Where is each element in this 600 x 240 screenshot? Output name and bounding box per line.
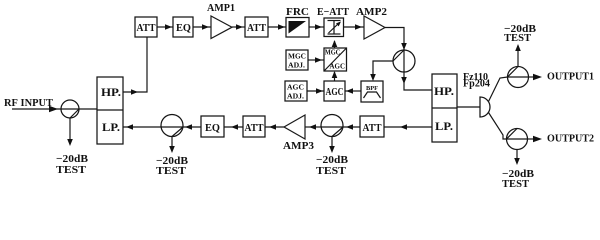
svg-text:Fp204: Fp204 bbox=[463, 79, 490, 90]
arrow into X1 LP bbox=[126, 124, 133, 130]
arrow OUTPUT1 bbox=[533, 74, 542, 80]
arrow into DC6 bbox=[185, 124, 192, 130]
label -20dB TEST T2 bbox=[156, 155, 189, 177]
wire MGC ADJ to MGC/AGC bbox=[308, 59, 324, 61]
wire DC6 to X1 LP bbox=[123, 126, 161, 128]
svg-text:TEST: TEST bbox=[504, 32, 532, 44]
wire DC5 to AMP3 bbox=[305, 126, 321, 128]
directional coupler DC5 bbox=[321, 115, 343, 137]
svg-text:OUTPUT1: OUTPUT1 bbox=[547, 71, 594, 83]
svg-text:FRC: FRC bbox=[286, 6, 309, 18]
wire EQ2 to DC6 bbox=[183, 126, 201, 128]
svg-text:ATT: ATT bbox=[245, 122, 265, 134]
electronic attenuator E-ATT bbox=[317, 6, 350, 37]
arrow into DC5 bbox=[346, 124, 353, 130]
wire RF input bbox=[12, 108, 61, 110]
wire ATT1 to EQ1 bbox=[157, 26, 173, 28]
AGC box bbox=[324, 81, 345, 101]
equalizer EQ2 bbox=[201, 116, 224, 137]
svg-text:OUTPUT2: OUTPUT2 bbox=[547, 133, 594, 145]
wire DC4 to OUTPUT2 bbox=[528, 138, 537, 140]
arrow into BPF top bbox=[370, 74, 376, 81]
wire DC4 test tap down bbox=[516, 150, 518, 160]
svg-text:E−ATT: E−ATT bbox=[317, 6, 350, 18]
wire AMP1 to ATT2 bbox=[232, 26, 245, 28]
arrow on HP wire bbox=[131, 89, 138, 95]
arrow OUTPUT2 bbox=[533, 136, 542, 142]
diplexer X2 bbox=[432, 74, 457, 142]
svg-text:ADJ.: ADJ. bbox=[287, 92, 304, 101]
label Fz110 Fp204 bbox=[463, 72, 490, 90]
wire DC5 test tap bbox=[331, 137, 333, 148]
svg-text:ATT: ATT bbox=[137, 22, 157, 34]
wire splitter to DC3 bbox=[489, 77, 508, 102]
wire HP out to ATT1 bbox=[123, 37, 147, 92]
svg-text:AGC: AGC bbox=[326, 87, 344, 98]
arrow into AMP3 bbox=[309, 124, 316, 130]
wire DC2 tap to BPF bbox=[373, 61, 393, 75]
svg-text:MGC: MGC bbox=[288, 52, 306, 61]
arrow into AGC bbox=[316, 88, 323, 94]
arrow into E-ATT bottom bbox=[332, 40, 338, 47]
wire X2 LP to ATT3 bbox=[384, 126, 432, 128]
arrow into coupler DC1 bbox=[49, 106, 58, 112]
diplexer X1 bbox=[97, 77, 123, 144]
arrow into E-ATT bbox=[315, 24, 322, 30]
MGC/AGC mode box bbox=[324, 48, 347, 72]
directional coupler DC6 bbox=[161, 115, 183, 137]
equalizer EQ1 bbox=[173, 17, 193, 37]
svg-text:LP.: LP. bbox=[435, 119, 453, 133]
wire DC2 to diplexer X2 bbox=[404, 72, 432, 90]
svg-text:TEST: TEST bbox=[56, 164, 87, 176]
wire ATT2 to FRC bbox=[268, 26, 286, 28]
arrow on return wire bbox=[400, 124, 407, 130]
svg-text:EQ: EQ bbox=[176, 22, 191, 34]
wire X2 to splitter bbox=[457, 106, 480, 108]
amplifier AMP3 bbox=[283, 115, 315, 152]
arrow into EQ2 bbox=[231, 124, 238, 130]
svg-text:EQ: EQ bbox=[205, 122, 220, 134]
arrow into ATT2 bbox=[236, 24, 243, 30]
label -20dB TEST T3 bbox=[316, 154, 349, 177]
svg-text:TEST: TEST bbox=[316, 165, 347, 177]
wire DC3 to OUTPUT1 bbox=[529, 76, 537, 78]
attenuator ATT2 bbox=[245, 17, 268, 37]
arrow down to test point T5 bbox=[514, 158, 520, 165]
arrow up to test point T4 bbox=[515, 44, 521, 51]
wire E-ATT to AMP2 bbox=[344, 26, 365, 28]
wire AGC ADJ to AGC bbox=[307, 90, 324, 92]
directional coupler DC3 bbox=[508, 67, 529, 88]
amplifier AMP2 bbox=[356, 6, 388, 39]
label -20dB TEST T5 bbox=[502, 168, 535, 190]
forward receiver FRC bbox=[286, 6, 309, 37]
attenuator ATT3 bbox=[360, 116, 384, 137]
arrow into FRC bbox=[278, 24, 285, 30]
arrow into AMP1 bbox=[202, 24, 209, 30]
arrow down to test point T2 bbox=[169, 146, 175, 153]
wire DC6 test tap bbox=[171, 137, 173, 148]
band pass filter BPF bbox=[361, 81, 383, 102]
svg-text:HP.: HP. bbox=[101, 85, 121, 99]
svg-text:ATT: ATT bbox=[247, 22, 267, 34]
svg-text:TEST: TEST bbox=[156, 165, 187, 177]
wire ATT3 to DC5 bbox=[343, 126, 360, 128]
wire BPF to AGC bbox=[345, 90, 361, 92]
attenuator ATT4 bbox=[243, 116, 265, 137]
arrow into ATT4 bbox=[269, 124, 276, 130]
svg-text:AMP2: AMP2 bbox=[356, 6, 388, 18]
svg-text:LP.: LP. bbox=[102, 120, 120, 134]
svg-text:MGC: MGC bbox=[325, 48, 341, 57]
svg-text:AGC: AGC bbox=[330, 62, 346, 71]
svg-text:AMP3: AMP3 bbox=[283, 140, 315, 152]
wire AMP2 to coupler DC2 bbox=[385, 28, 404, 51]
svg-text:ATT: ATT bbox=[363, 122, 383, 134]
label -20dB TEST T1 bbox=[56, 153, 89, 176]
svg-text:ADJ.: ADJ. bbox=[288, 61, 305, 70]
arrow into DC2 top bbox=[401, 43, 407, 50]
wire FRC to E-ATT bbox=[309, 26, 324, 28]
wire DC3 test tap up bbox=[517, 49, 519, 67]
directional coupler DC1 bbox=[61, 100, 79, 118]
wire splitter to DC4 bbox=[489, 113, 507, 140]
arrow into EQ1 bbox=[165, 24, 172, 30]
svg-text:AGC: AGC bbox=[287, 83, 304, 92]
wire DC1 to diplexer X1 bbox=[79, 108, 97, 110]
svg-text:RF INPUT: RF INPUT bbox=[4, 97, 54, 109]
arrow into MGC/AGC bottom bbox=[332, 71, 338, 78]
arrow on DC2 down wire bbox=[401, 77, 407, 84]
wire MGC/AGC to E-ATT bbox=[334, 41, 336, 48]
wire DC1 test tap bbox=[69, 118, 71, 140]
svg-text:AMP1: AMP1 bbox=[207, 2, 235, 14]
arrow down to test point T3 bbox=[329, 146, 335, 153]
arrow into MGC/AGC bbox=[315, 57, 322, 63]
svg-text:TEST: TEST bbox=[502, 178, 530, 190]
arrow into AGC right bbox=[346, 88, 353, 94]
wire ATT4 to EQ2 bbox=[224, 126, 243, 128]
arrow into AMP2 bbox=[355, 24, 362, 30]
splitter SP1 bbox=[480, 97, 490, 117]
svg-text:BPF: BPF bbox=[366, 86, 378, 92]
wire AMP3 to ATT4 bbox=[265, 126, 284, 128]
wire EQ1 to AMP1 bbox=[193, 26, 211, 28]
AGC ADJ. box bbox=[285, 81, 307, 101]
directional coupler DC4 bbox=[507, 129, 528, 150]
svg-text:HP.: HP. bbox=[434, 84, 454, 98]
directional coupler DC2 bbox=[393, 50, 415, 72]
attenuator ATT1 bbox=[135, 17, 157, 37]
MGC ADJ. box bbox=[286, 50, 308, 70]
label -20dB TEST T4 bbox=[504, 23, 537, 44]
arrow down to test point T1 bbox=[67, 139, 73, 146]
wire AGC to MGC/AGC bbox=[334, 72, 336, 81]
amplifier AMP1 bbox=[207, 2, 235, 39]
